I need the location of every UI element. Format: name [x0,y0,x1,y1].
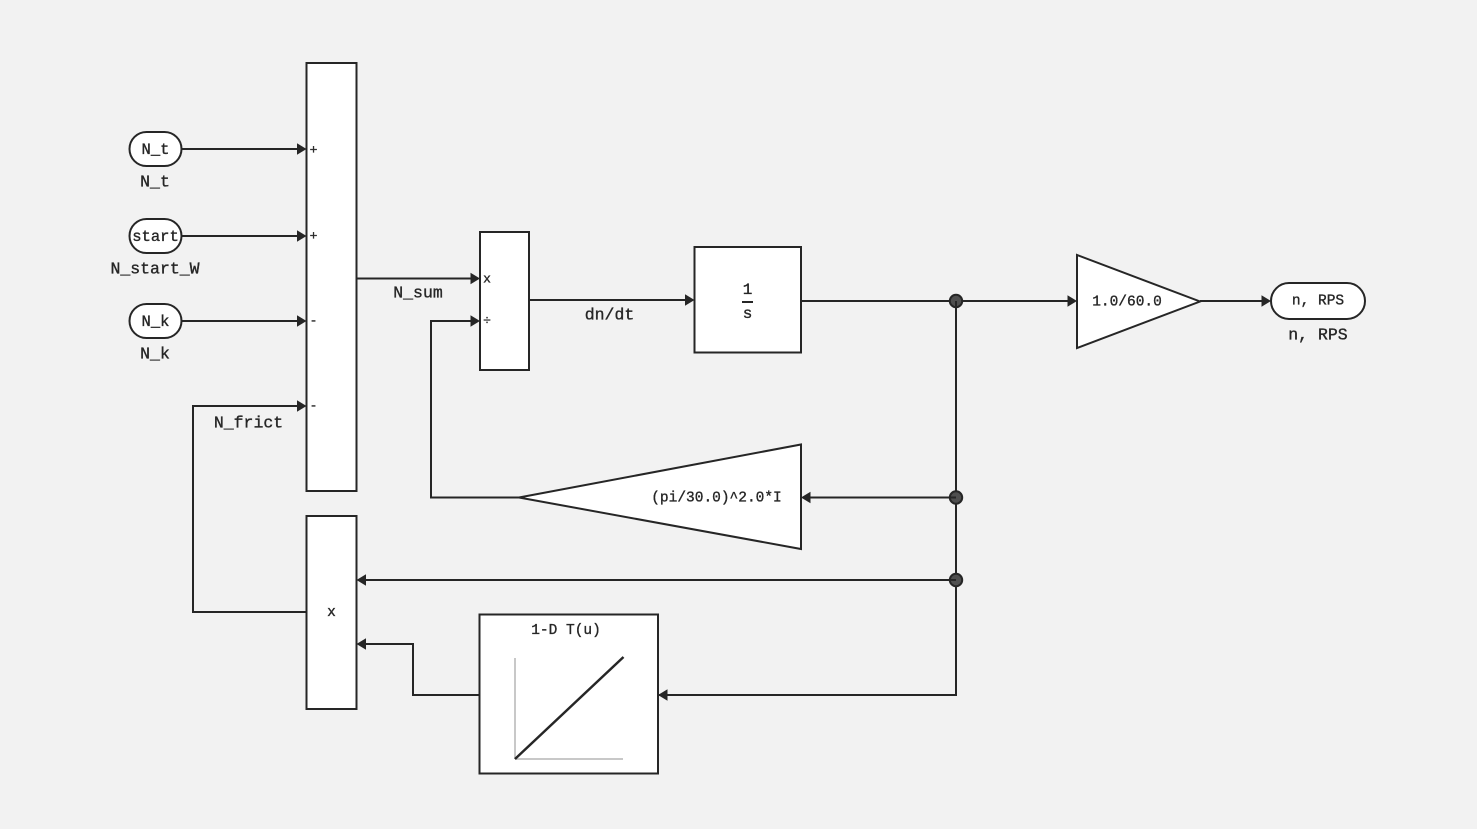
svg-text:1: 1 [743,281,753,299]
label N_t [140,173,170,192]
gain (pi/30.0)^2.0*I [519,445,801,550]
wire gain to outport [1200,295,1271,306]
wire integrator to gain 1.0/60.0 [801,295,1077,306]
lookup table 1-D T(u) [480,615,659,774]
svg-text:-: - [310,314,318,329]
label N_k [140,345,170,364]
svg-text:x: x [327,605,336,621]
svg-text:-: - [310,399,318,414]
inport N_t [130,132,182,166]
wire pi gain to product divide input [431,315,519,497]
svg-text:N_k: N_k [140,345,170,364]
svg-text:x: x [483,272,491,287]
wire node to pi gain [801,492,956,503]
svg-text:s: s [743,305,753,323]
svg-text:+: + [310,143,318,158]
integrator block 1/s [695,247,802,353]
wire N_t to sum [182,143,307,154]
sum block (Add) [307,63,357,491]
svg-text:N_t: N_t [142,141,170,159]
node junction feeding gain (pi/30.0)^2.0*I [950,491,962,503]
svg-text:1.0/60.0: 1.0/60.0 [1092,295,1162,311]
inport N_k [130,304,182,338]
label N_frict [214,414,283,433]
label N_sum [393,284,443,303]
multiply block x [307,516,357,709]
label n, RPS [1288,326,1348,345]
wire sum to product (N_sum) [357,273,481,284]
gain 1.0/60.0 [1077,255,1200,348]
feedback vertical wire from node after integrator [658,301,956,695]
svg-text:n, RPS: n, RPS [1288,326,1348,345]
svg-text:N_sum: N_sum [393,284,443,303]
wire lookup table to multiply second input [357,638,480,695]
outport n, RPS [1271,283,1365,319]
inport start [130,219,182,253]
wire N_k to sum [182,315,307,326]
wire product to integrator (dn/dt) [529,294,695,305]
wire node to multiply first input [357,574,957,585]
svg-text:N_frict: N_frict [214,414,283,433]
svg-text:dn/dt: dn/dt [585,306,635,325]
svg-text:(pi/30.0)^2.0*I: (pi/30.0)^2.0*I [651,491,782,507]
label N_start_W [110,260,199,279]
arrow into lookup table [658,689,668,700]
product block (multiply/divide) [480,232,529,370]
label dn/dt [585,306,635,325]
svg-text:n, RPS: n, RPS [1292,294,1344,310]
svg-text:N_k: N_k [142,313,170,331]
svg-text:N_start_W: N_start_W [110,260,199,279]
wire N_frict (multiply output to sum minus input) [193,400,307,612]
wire start to sum [182,230,307,241]
svg-text:1-D T(u): 1-D T(u) [531,623,601,639]
node junction feeding multiply [950,574,962,586]
svg-text:÷: ÷ [483,314,491,329]
svg-text:+: + [310,229,318,244]
node junction after integrator [950,295,962,307]
svg-text:start: start [132,228,179,246]
svg-text:N_t: N_t [140,173,170,192]
